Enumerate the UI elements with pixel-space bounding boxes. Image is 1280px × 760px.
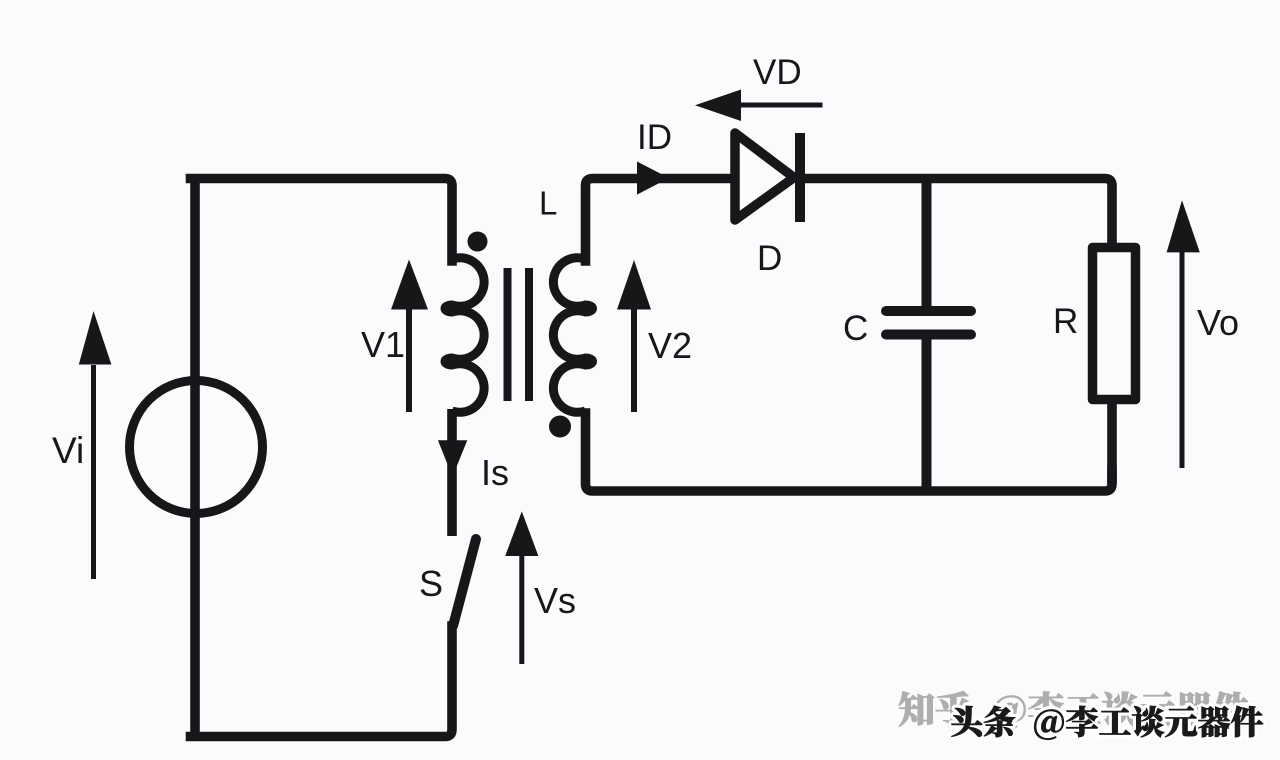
- watermark toutiao black: [952, 706, 1264, 740]
- svg-text:V2: V2: [648, 325, 692, 366]
- capacitor C top plate: [886, 306, 971, 316]
- svg-text:V1: V1: [361, 324, 405, 365]
- transformer T1 primary winding: [445, 258, 484, 413]
- svg-text:D: D: [757, 239, 782, 278]
- arrow V1: [406, 306, 412, 412]
- arrow Vo: [1180, 248, 1185, 468]
- wire left rail: [190, 182, 200, 732]
- diode D cathode bar: [795, 133, 805, 222]
- wire capacitor top branch: [922, 179, 932, 307]
- diode D triangle: [735, 133, 794, 220]
- voltage source Vi: [130, 381, 263, 514]
- svg-text:Vi: Vi: [52, 430, 84, 471]
- wire bottom-left rail and switch drop: [191, 626, 453, 737]
- wire primary bottom to switch: [447, 409, 457, 536]
- watermark toutiao white fringe: [952, 706, 1264, 740]
- transformer core bar right: [525, 268, 533, 401]
- svg-text:VD: VD: [753, 53, 802, 92]
- polarity dot primary: [468, 232, 488, 252]
- wire capacitor bottom branch: [922, 340, 932, 492]
- watermark zhihu gray: [899, 691, 1249, 729]
- polarity dot secondary: [549, 416, 571, 438]
- transformer T1 secondary winding: [553, 258, 592, 413]
- wire secondary top corner to diode anode: [586, 179, 733, 262]
- svg-text:S: S: [419, 563, 443, 604]
- arrow ID (current arrowhead on wire): [637, 162, 669, 195]
- svg-text:ID: ID: [637, 118, 672, 157]
- transformer core bar left: [504, 268, 512, 401]
- wire resistor bottom to bottom rail: [1107, 399, 1117, 484]
- svg-text:L: L: [539, 185, 557, 222]
- wire diode cathode to resistor top: [800, 179, 1112, 248]
- switch S blade: [453, 539, 476, 626]
- svg-text:R: R: [1053, 302, 1078, 341]
- svg-text:Is: Is: [481, 452, 509, 493]
- svg-text:C: C: [843, 309, 868, 348]
- arrow VD: [740, 103, 823, 108]
- svg-text:Vs: Vs: [534, 580, 576, 621]
- arrow V2: [631, 306, 637, 412]
- capacitor C bottom plate: [886, 330, 971, 340]
- svg-text:Vo: Vo: [1197, 302, 1239, 343]
- wire top-left rail and primary drop: [191, 179, 453, 262]
- arrow Vs: [519, 552, 524, 664]
- arrow Vi: [91, 365, 96, 579]
- resistor R body: [1093, 248, 1136, 400]
- wire right-loop bottom rail: [586, 413, 1113, 491]
- arrow Is (current arrowhead on wire): [438, 440, 467, 477]
